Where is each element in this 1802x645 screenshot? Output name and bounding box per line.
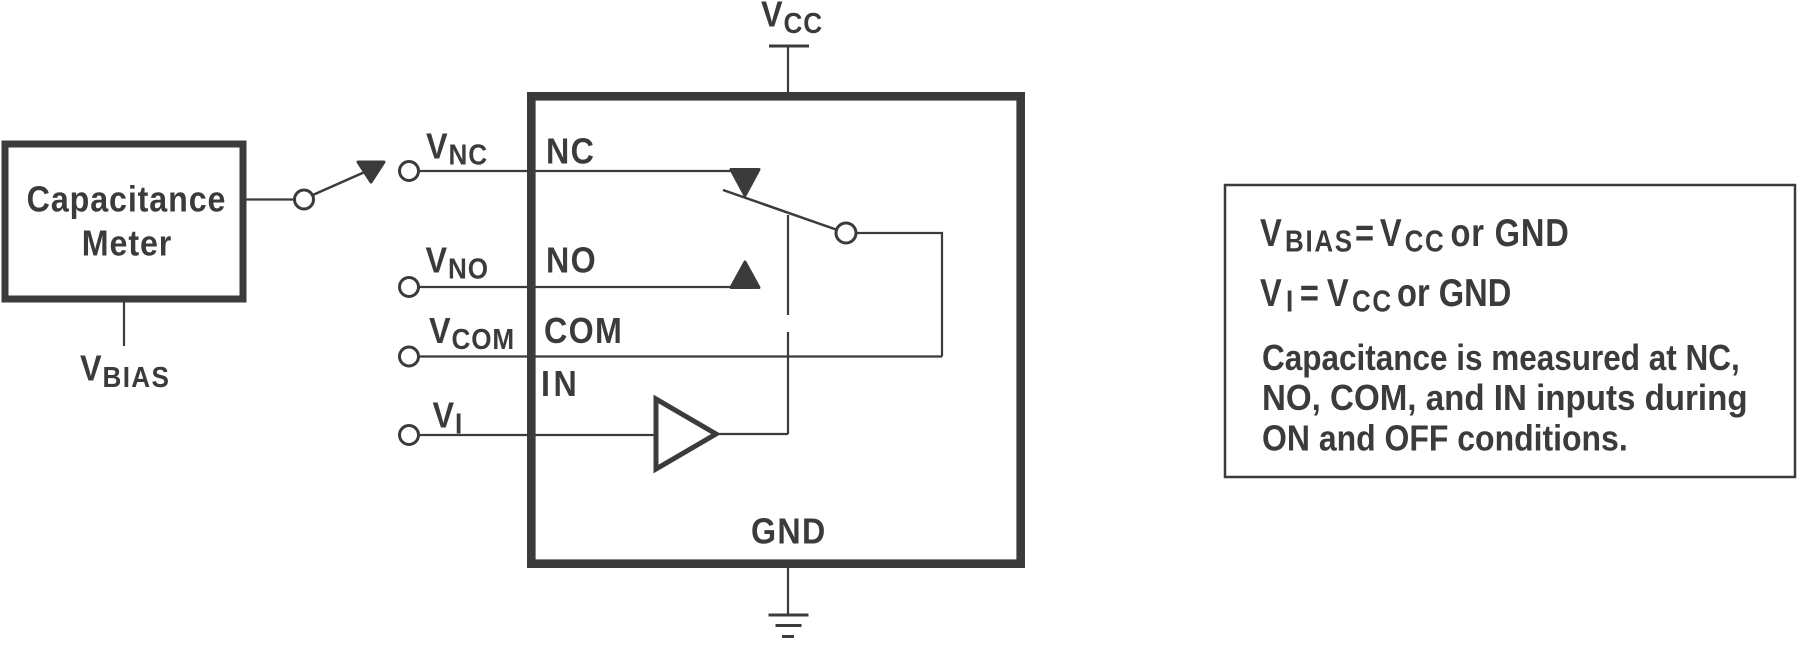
wire COM bbox=[419, 355, 943, 357]
terminal VCOM bbox=[400, 347, 419, 366]
control line lower segment bbox=[787, 332, 789, 434]
wire VCC stem bbox=[787, 46, 789, 96]
svg-text:NO: NO bbox=[546, 241, 597, 281]
NC switch contact arrow bbox=[731, 170, 759, 196]
label Capacitance Meter bbox=[27, 180, 227, 264]
wire meter bottom stem bbox=[123, 302, 125, 346]
switch pole circle (internal) bbox=[836, 223, 856, 243]
buffer U1 bbox=[656, 399, 716, 469]
ground symbol bbox=[769, 615, 809, 637]
wire pole to right bbox=[856, 233, 942, 357]
switch pole circle (external) bbox=[295, 190, 314, 209]
terminal VI bbox=[400, 426, 419, 445]
control line upper segment bbox=[787, 215, 789, 315]
wire meter to switch bbox=[246, 198, 298, 200]
wire VI input bbox=[419, 434, 659, 436]
svg-text:Capacitance is measured at NC,: Capacitance is measured at NC, bbox=[1262, 338, 1740, 378]
switch lever (external) bbox=[306, 171, 367, 198]
svg-text:Capacitance: Capacitance bbox=[27, 180, 227, 220]
arrowhead at VNC bbox=[358, 162, 384, 182]
svg-text:ON and OFF conditions.: ON and OFF conditions. bbox=[1262, 419, 1628, 459]
wire GND stem bbox=[787, 564, 789, 615]
wire buffer output bbox=[716, 433, 788, 435]
terminal VNC bbox=[400, 162, 419, 181]
capacitance meter box bbox=[5, 144, 243, 299]
note paragraph bbox=[1262, 338, 1748, 459]
svg-text:VCC: VCC bbox=[761, 0, 823, 39]
NO switch contact arrow bbox=[731, 262, 759, 288]
svg-text:GND: GND bbox=[751, 512, 827, 552]
wire NO bbox=[419, 286, 734, 288]
svg-text:COM: COM bbox=[544, 311, 623, 351]
VCC supply bar bbox=[769, 45, 809, 48]
switch lever (internal) bbox=[723, 190, 846, 233]
wire NC bbox=[419, 170, 734, 172]
svg-text:NC: NC bbox=[546, 132, 595, 172]
DUT box bbox=[531, 96, 1020, 563]
svg-text:NO, COM, and IN inputs during: NO, COM, and IN inputs during bbox=[1262, 379, 1748, 419]
svg-text:IN: IN bbox=[541, 364, 580, 404]
note box bbox=[1225, 185, 1795, 477]
terminal VNO bbox=[400, 278, 419, 297]
svg-text:Meter: Meter bbox=[82, 224, 172, 264]
